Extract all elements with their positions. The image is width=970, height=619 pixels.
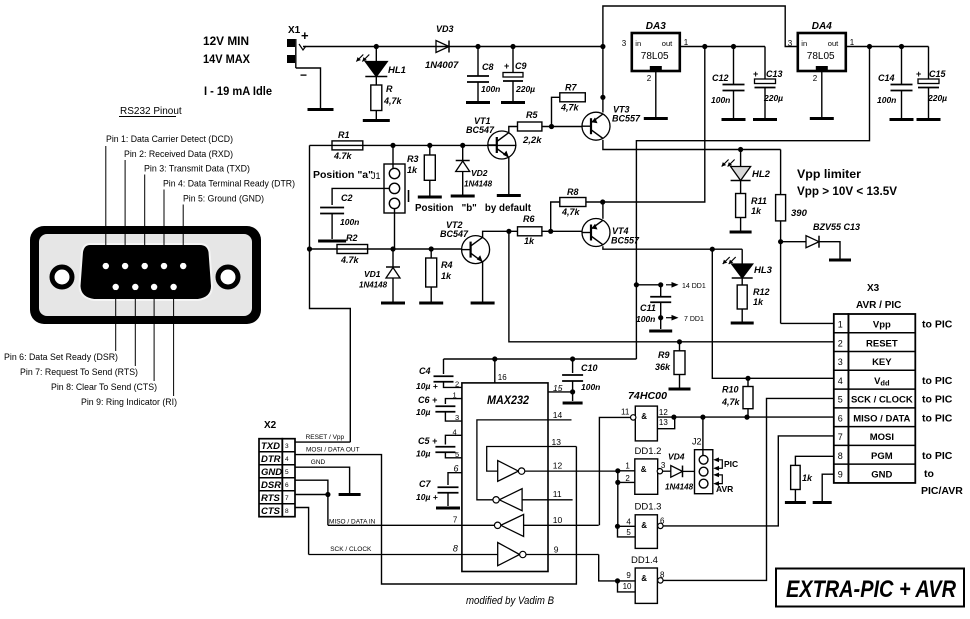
wire bbox=[430, 287, 432, 302]
transistor VT3 bbox=[582, 112, 610, 140]
svg-text:4,7k: 4,7k bbox=[561, 207, 581, 217]
DB9 connector body bbox=[30, 226, 261, 324]
svg-text:to PIC: to PIC bbox=[922, 450, 953, 462]
svg-text:C11: C11 bbox=[640, 303, 656, 313]
DB9 pin 7 bbox=[132, 284, 138, 290]
svg-text:4: 4 bbox=[626, 518, 631, 527]
wire bbox=[660, 285, 662, 296]
ground C14 bbox=[890, 118, 914, 121]
capacitor C12 bbox=[723, 84, 745, 86]
wire C4 top bbox=[443, 359, 445, 374]
diode VD3 bbox=[436, 41, 449, 53]
svg-text:HL3: HL3 bbox=[754, 265, 773, 276]
node Vdd branch bbox=[710, 247, 715, 252]
svg-text:12: 12 bbox=[553, 461, 563, 471]
wire bbox=[780, 150, 782, 195]
resistor 1k bbox=[791, 465, 801, 489]
wire R2 row bbox=[310, 248, 462, 250]
svg-text:220µ: 220µ bbox=[927, 93, 947, 103]
svg-text:1k: 1k bbox=[751, 206, 762, 216]
capacitor C14 bbox=[891, 84, 913, 86]
svg-text:C8: C8 bbox=[482, 62, 494, 72]
svg-text:3: 3 bbox=[838, 357, 843, 367]
svg-text:C5 +: C5 + bbox=[418, 436, 438, 446]
svg-text:9: 9 bbox=[554, 545, 559, 555]
node R4 top bbox=[429, 246, 434, 251]
wire bbox=[683, 470, 695, 472]
svg-text:2: 2 bbox=[838, 338, 843, 348]
resistor R5 bbox=[518, 122, 542, 131]
svg-text:1N4148: 1N4148 bbox=[359, 281, 388, 290]
svg-text:6: 6 bbox=[285, 482, 289, 489]
svg-text:to PIC: to PIC bbox=[922, 412, 953, 424]
wire bbox=[429, 180, 431, 195]
svg-text:to PIC: to PIC bbox=[922, 394, 953, 406]
wire C5 to pin5 bbox=[445, 453, 462, 458]
wire RESET net bbox=[509, 231, 834, 341]
svg-text:PGM: PGM bbox=[871, 451, 893, 462]
svg-text:8: 8 bbox=[838, 451, 843, 461]
ground DA4 bbox=[810, 117, 834, 120]
wire DD1.1 out / MISO DATA row bbox=[657, 416, 833, 418]
wire bbox=[740, 218, 742, 231]
svg-text:DTR: DTR bbox=[261, 454, 281, 465]
wire pin8 line SCK/CLOCK bbox=[309, 554, 498, 556]
DB9 pin 1 bbox=[103, 263, 109, 269]
leader line pin 6 bbox=[115, 290, 117, 351]
svg-text:9: 9 bbox=[626, 571, 631, 580]
wire DD1.3 input4 bbox=[618, 525, 636, 527]
ground C12 bbox=[722, 118, 746, 121]
wire bbox=[430, 249, 432, 258]
ground R3 bbox=[418, 196, 442, 199]
wire bbox=[375, 47, 377, 62]
svg-text:1: 1 bbox=[684, 38, 689, 47]
svg-text:I - 19 mA Idle: I - 19 mA Idle bbox=[204, 84, 272, 98]
arrow to DD1 pin 14 bbox=[666, 284, 676, 286]
jumper J1 bbox=[384, 164, 405, 213]
svg-text:10µ +: 10µ + bbox=[416, 381, 438, 391]
svg-text:DD1.2: DD1.2 bbox=[635, 446, 662, 457]
wire DTR MOSI/DATA OUT to pin13 bbox=[295, 447, 576, 585]
regulator DA3 78L05 bbox=[632, 33, 680, 71]
capacitor C9 bbox=[503, 73, 523, 78]
wire bbox=[572, 359, 574, 373]
svg-text:3: 3 bbox=[661, 461, 666, 470]
wire DD1.1 pin13 tie bbox=[657, 417, 674, 429]
wire J2 top pin bbox=[702, 417, 704, 455]
ground X2 bbox=[339, 493, 361, 496]
ground C10 bbox=[563, 402, 583, 405]
node C14 tap bbox=[899, 44, 904, 49]
wire bbox=[733, 47, 735, 85]
svg-text:out: out bbox=[828, 39, 839, 48]
LED HL1 bbox=[365, 62, 387, 77]
wire bbox=[819, 242, 840, 259]
svg-text:1N4007: 1N4007 bbox=[425, 60, 459, 71]
svg-text:Pin 8: Clear To Send (CTS): Pin 8: Clear To Send (CTS) bbox=[51, 382, 157, 393]
wire pin1 to C6 bbox=[445, 399, 462, 404]
node J2 tap bbox=[700, 415, 705, 420]
resistor R7 bbox=[560, 93, 586, 102]
wire VT1 collector bbox=[509, 127, 518, 133]
svg-text:78L05: 78L05 bbox=[807, 51, 835, 62]
svg-text:1k: 1k bbox=[524, 236, 535, 246]
svg-text:2,2k: 2,2k bbox=[522, 135, 542, 146]
svg-text:R: R bbox=[386, 84, 393, 94]
svg-text:C2: C2 bbox=[341, 193, 353, 203]
ground VD2 bbox=[451, 195, 475, 198]
wire bbox=[663, 470, 671, 472]
svg-text:to PIC: to PIC bbox=[922, 375, 953, 387]
svg-text:1k: 1k bbox=[407, 165, 418, 175]
wire bbox=[586, 201, 603, 203]
wire 12V rail bbox=[303, 46, 603, 48]
svg-text:14V MAX: 14V MAX bbox=[203, 54, 250, 66]
svg-text:R3: R3 bbox=[407, 154, 419, 164]
wire pin9 out bbox=[526, 554, 599, 556]
svg-text:4,7k: 4,7k bbox=[560, 103, 580, 113]
wire bbox=[747, 409, 749, 417]
zener BZV55C13 bbox=[806, 236, 819, 248]
leader line pin 8 bbox=[153, 290, 155, 381]
svg-text:14: 14 bbox=[553, 410, 563, 420]
svg-text:Pin 5: Ground (GND): Pin 5: Ground (GND) bbox=[183, 194, 264, 205]
svg-text:GND: GND bbox=[311, 459, 326, 466]
wire bbox=[747, 378, 749, 386]
svg-text:1k: 1k bbox=[753, 297, 764, 307]
MAX232 receiver R1 bbox=[499, 489, 522, 511]
DB9 screw hole right bbox=[218, 267, 238, 287]
wire pin15 bbox=[548, 391, 573, 393]
svg-text:R9: R9 bbox=[658, 350, 670, 360]
node DD1.2 in tie2 bbox=[615, 480, 620, 485]
svg-text:C7: C7 bbox=[419, 479, 431, 489]
wire bbox=[296, 68, 321, 108]
node BZV55 tap bbox=[778, 239, 783, 244]
ground X3 bbox=[813, 501, 832, 504]
node R9 top bbox=[677, 339, 682, 344]
wire bbox=[741, 278, 743, 285]
ground C9 bbox=[501, 101, 525, 104]
connector X3 body bbox=[834, 314, 849, 483]
resistor R bbox=[371, 85, 382, 111]
wire bbox=[477, 82, 479, 101]
node C11 top bbox=[658, 282, 663, 287]
svg-text:100n: 100n bbox=[636, 314, 655, 324]
wire pin11 stub bbox=[522, 499, 573, 501]
gate DD1.1 bbox=[635, 406, 657, 441]
svg-text:10: 10 bbox=[623, 582, 632, 591]
svg-text:100n: 100n bbox=[877, 95, 896, 105]
wire pin7 line MISO/DATA IN bbox=[328, 524, 495, 526]
svg-text:7 DD1: 7 DD1 bbox=[684, 316, 704, 323]
resistor R8 bbox=[560, 198, 586, 207]
wire bbox=[660, 303, 662, 330]
node C12 tap bbox=[731, 44, 736, 49]
wire bbox=[331, 214, 333, 240]
svg-text:220µ: 220µ bbox=[515, 84, 535, 94]
LED HL3 bbox=[732, 264, 753, 278]
svg-text:SCK / CLOCK: SCK / CLOCK bbox=[330, 546, 372, 553]
svg-text:100n: 100n bbox=[711, 95, 730, 105]
svg-text:4,7k: 4,7k bbox=[383, 96, 403, 106]
svg-text:220µ: 220µ bbox=[763, 93, 783, 103]
svg-text:BC547: BC547 bbox=[440, 229, 469, 239]
wire DSR join bbox=[295, 480, 328, 525]
DB9 pin 4 bbox=[161, 263, 167, 269]
svg-text:AVR / PIC: AVR / PIC bbox=[856, 300, 901, 311]
svg-text:MAX232: MAX232 bbox=[487, 393, 529, 407]
capacitor C2 bbox=[320, 207, 344, 209]
svg-text:13: 13 bbox=[552, 437, 562, 447]
wire R5 to VT3 base bbox=[542, 126, 582, 128]
svg-text:J2: J2 bbox=[692, 436, 702, 446]
wire GND pin5 bbox=[295, 467, 350, 493]
ground VT1 bbox=[497, 194, 521, 197]
svg-text:1k: 1k bbox=[441, 271, 452, 281]
svg-text:1: 1 bbox=[838, 320, 843, 330]
ground VD1 bbox=[381, 302, 405, 305]
node R8 right bbox=[600, 199, 605, 204]
node DD1.1 out tie bbox=[671, 415, 676, 420]
ground VT2 bbox=[471, 302, 495, 305]
svg-text:C6 +: C6 + bbox=[418, 395, 438, 405]
svg-text:10µ +: 10µ + bbox=[416, 492, 438, 502]
MAX232 driver T1 bbox=[498, 461, 519, 482]
wire bbox=[740, 150, 742, 167]
ground R11 bbox=[730, 231, 752, 234]
node R8 left bbox=[548, 229, 553, 234]
DB9 pin 5 bbox=[180, 263, 186, 269]
svg-text:EXTRA-PIC + AVR: EXTRA-PIC + AVR bbox=[786, 576, 957, 603]
svg-text:1: 1 bbox=[625, 461, 630, 470]
svg-text:7: 7 bbox=[838, 432, 843, 442]
svg-text:Vdd: Vdd bbox=[874, 376, 890, 388]
svg-text:C12: C12 bbox=[712, 73, 729, 83]
wire CTS to SCK bbox=[295, 508, 309, 555]
wire pin10 line bbox=[524, 524, 599, 526]
wire bbox=[447, 493, 449, 506]
node C10 tap bbox=[570, 356, 575, 361]
node HL2 tap bbox=[738, 147, 743, 152]
gate DD1.3 bbox=[635, 515, 657, 549]
J2 AVR select arrows bbox=[715, 475, 723, 484]
wire input tie down to DD1.3 bbox=[617, 471, 619, 527]
svg-text:3: 3 bbox=[622, 39, 627, 48]
svg-text:5: 5 bbox=[626, 528, 631, 537]
capacitor C5 bbox=[435, 446, 455, 448]
svg-text:BC547: BC547 bbox=[466, 125, 495, 135]
svg-text:4: 4 bbox=[285, 456, 289, 463]
wire C6 to pin3 bbox=[445, 412, 462, 421]
arrow to DD1 pin 7 bbox=[666, 317, 676, 319]
svg-text:R11: R11 bbox=[751, 196, 767, 206]
ground C15 bbox=[917, 118, 941, 121]
svg-text:1: 1 bbox=[453, 391, 457, 400]
svg-text:modified by Vadim B: modified by Vadim B bbox=[466, 595, 554, 607]
capacitor C11 bbox=[650, 296, 671, 298]
wire 12V to DA4 input bbox=[603, 6, 798, 47]
svg-text:R4: R4 bbox=[441, 260, 453, 270]
svg-text:X3: X3 bbox=[867, 283, 880, 294]
wire 12V to VT3 emitter bbox=[602, 47, 604, 113]
ground R9 bbox=[669, 388, 691, 391]
svg-text:Pin 6: Data Set Ready (DSR): Pin 6: Data Set Ready (DSR) bbox=[4, 352, 118, 363]
node DA3 out to VT stage bbox=[702, 44, 707, 49]
svg-text:Vpp limiter: Vpp limiter bbox=[797, 167, 861, 181]
svg-text:Pin 9: Ring Indicator (RI): Pin 9: Ring Indicator (RI) bbox=[81, 397, 177, 408]
svg-text:+: + bbox=[504, 61, 509, 71]
svg-text:PIC: PIC bbox=[724, 459, 738, 469]
ground C7 bbox=[436, 507, 460, 510]
wire bbox=[394, 209, 396, 250]
svg-text:100n: 100n bbox=[481, 84, 500, 94]
svg-text:74HC00: 74HC00 bbox=[628, 390, 667, 402]
leader line pin 7 bbox=[134, 290, 136, 366]
resistor R12 bbox=[737, 285, 747, 309]
wire bbox=[741, 309, 743, 322]
svg-text:C14: C14 bbox=[878, 73, 895, 83]
ground C11 bbox=[649, 330, 672, 333]
svg-text:C15: C15 bbox=[929, 69, 947, 79]
svg-text:Pin 1: Data Carrier Detect (DC: Pin 1: Data Carrier Detect (DCD) bbox=[106, 134, 233, 145]
svg-text:R8: R8 bbox=[567, 187, 579, 197]
wire VT2 emitter bbox=[482, 262, 484, 302]
svg-text:C13: C13 bbox=[766, 69, 783, 79]
svg-text:VD1: VD1 bbox=[364, 269, 381, 279]
wire C4 to pin2 bbox=[444, 382, 462, 387]
svg-text:VD2: VD2 bbox=[471, 168, 488, 178]
node J1 bottom bbox=[390, 246, 395, 251]
node C11 bottom bbox=[658, 315, 663, 320]
svg-text:4: 4 bbox=[838, 376, 843, 386]
svg-text:DD1.3: DD1.3 bbox=[635, 502, 662, 513]
wire pin13 loop bbox=[487, 447, 577, 472]
svg-text:R6: R6 bbox=[523, 214, 535, 224]
svg-text:HL1: HL1 bbox=[388, 65, 406, 76]
gate DD1.4 bbox=[635, 568, 657, 603]
diode VD4 bbox=[671, 466, 683, 478]
svg-text:5: 5 bbox=[838, 395, 843, 405]
svg-text:GND: GND bbox=[261, 467, 282, 478]
resistor R3 bbox=[424, 155, 435, 180]
svg-text:R2: R2 bbox=[346, 233, 358, 243]
wire J1 middle to C2 bbox=[332, 188, 389, 205]
svg-text:to PIC: to PIC bbox=[922, 319, 953, 331]
wire bbox=[679, 342, 681, 351]
svg-text:BC557: BC557 bbox=[612, 114, 641, 124]
jumper J2 bbox=[695, 450, 713, 494]
svg-text:VD4: VD4 bbox=[668, 452, 685, 462]
wire DD1.3 input5 bbox=[618, 526, 636, 537]
wire bbox=[512, 81, 514, 101]
svg-text:DSR: DSR bbox=[261, 480, 281, 491]
node R3 top bbox=[427, 143, 432, 148]
svg-text:SCK / CLOCK: SCK / CLOCK bbox=[851, 395, 913, 406]
J2 PIC select arrows bbox=[715, 460, 723, 469]
svg-text:2: 2 bbox=[647, 74, 652, 83]
resistor R9 bbox=[674, 351, 685, 375]
svg-text:7: 7 bbox=[453, 515, 458, 524]
wire VT1 emitter bbox=[508, 157, 510, 194]
svg-text:C10: C10 bbox=[581, 363, 598, 373]
wire pin4 to C5 bbox=[445, 435, 462, 444]
DB9 pin 8 bbox=[151, 284, 157, 290]
svg-text:9: 9 bbox=[838, 470, 843, 480]
wire bbox=[477, 47, 479, 77]
svg-text:4.7k: 4.7k bbox=[333, 151, 353, 161]
node DD1.3 in tie bbox=[615, 524, 620, 529]
resistor 390 bbox=[776, 195, 786, 221]
svg-text:MOSI: MOSI bbox=[870, 432, 894, 443]
diode VD1 bbox=[386, 266, 400, 268]
svg-text:Pin 7: Request To Send (RTS): Pin 7: Request To Send (RTS) bbox=[20, 367, 138, 378]
node VT3/DA3 tap bbox=[600, 44, 605, 49]
svg-text:R7: R7 bbox=[565, 83, 577, 93]
DB9 pin 6 bbox=[113, 284, 119, 290]
svg-text:11: 11 bbox=[621, 408, 630, 417]
svg-text:−: − bbox=[300, 68, 307, 82]
svg-text:6: 6 bbox=[454, 464, 459, 474]
wire MAX232 pin10 to DD1.1 input bbox=[599, 417, 630, 525]
resistor R1 bbox=[332, 141, 363, 150]
svg-text:DD1.4: DD1.4 bbox=[631, 555, 658, 566]
wire bbox=[764, 88, 766, 118]
svg-text:GND: GND bbox=[871, 470, 892, 481]
capacitor C6 bbox=[435, 405, 455, 407]
wire 5V rail to MAX232 VCC bbox=[636, 47, 869, 360]
svg-text:3: 3 bbox=[285, 443, 289, 450]
wire DD1.3 out to MOSI row bbox=[663, 436, 834, 526]
regulator DA4 78L05 bbox=[798, 33, 846, 71]
svg-text:+: + bbox=[301, 28, 309, 43]
ground R12 bbox=[731, 322, 754, 325]
gate DD1.2 bbox=[635, 459, 658, 494]
wire VCC rail bbox=[444, 358, 637, 360]
wire Vdd row bbox=[712, 249, 834, 378]
wire VT2 collector bbox=[483, 231, 518, 237]
node VD2 top bbox=[460, 143, 465, 148]
node R2 tap bbox=[307, 246, 312, 251]
transistor VT2 bbox=[462, 236, 490, 264]
svg-text:BZV55 C13: BZV55 C13 bbox=[813, 222, 860, 232]
J1 position b mark bbox=[408, 190, 410, 202]
svg-text:10µ: 10µ bbox=[416, 449, 430, 459]
svg-text:C4: C4 bbox=[419, 366, 431, 376]
wire TXD to RESET/Vpp bbox=[295, 441, 350, 443]
wire R1 row bbox=[310, 144, 517, 146]
node RESET drive bbox=[506, 229, 511, 234]
wire Vpp row bbox=[781, 322, 834, 324]
svg-text:+: + bbox=[753, 69, 758, 79]
wire bbox=[741, 249, 743, 263]
wire pin12 out bbox=[525, 470, 618, 472]
wire VT4 collector 5V switched bbox=[603, 246, 742, 249]
wire DD1.2 input2 bbox=[618, 481, 635, 483]
wire R6 to VT4 base bbox=[542, 230, 582, 232]
ground C13 bbox=[753, 118, 777, 121]
leader line pin 3 bbox=[144, 175, 146, 264]
wire R8 left leg bbox=[551, 202, 560, 231]
wire DA3 output bbox=[680, 46, 765, 48]
ground BZV55 bbox=[829, 259, 851, 262]
ground HL1 bbox=[363, 119, 390, 122]
svg-text:HL2: HL2 bbox=[752, 169, 771, 180]
svg-text:+: + bbox=[916, 69, 921, 79]
wire bbox=[928, 47, 930, 80]
svg-text:&: & bbox=[641, 574, 647, 583]
